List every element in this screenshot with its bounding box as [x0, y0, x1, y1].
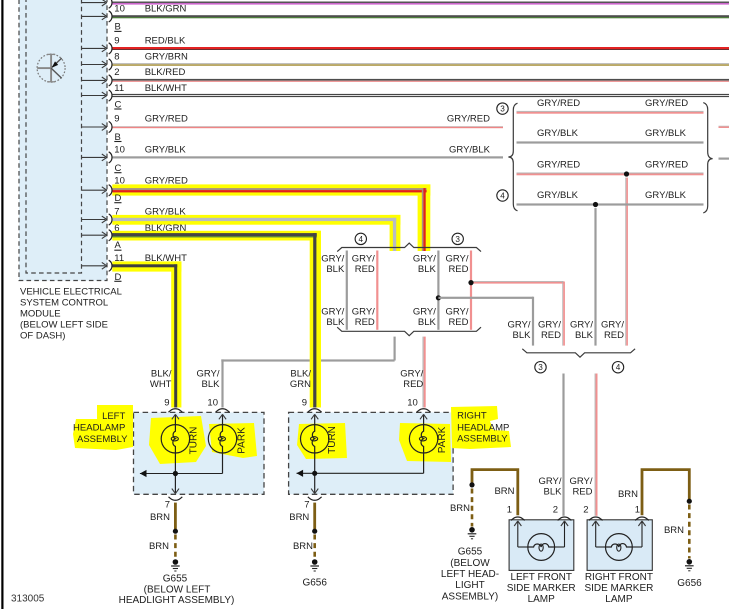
svg-text:(BELOW LEFT SIDE: (BELOW LEFT SIDE	[20, 320, 108, 331]
svg-text:RED: RED	[448, 264, 468, 275]
svg-text:GRY/BLK: GRY/BLK	[145, 144, 187, 155]
svg-text:GRY/: GRY/	[445, 306, 468, 317]
svg-text:GRY/RED: GRY/RED	[145, 113, 188, 124]
svg-text:GRY/: GRY/	[413, 306, 436, 317]
svg-text:BRN: BRN	[150, 512, 170, 523]
svg-text:7: 7	[304, 500, 309, 511]
svg-text:PARK: PARK	[437, 426, 448, 453]
svg-text:G656: G656	[677, 578, 702, 589]
svg-text:RED: RED	[604, 330, 624, 341]
svg-text:8: 8	[114, 52, 119, 63]
svg-text:(BELOW: (BELOW	[450, 558, 490, 569]
svg-text:LEFT HEAD-: LEFT HEAD-	[441, 569, 499, 580]
svg-text:BLK/WHT: BLK/WHT	[145, 83, 187, 94]
svg-text:GRY/: GRY/	[445, 253, 468, 264]
svg-text:GRY/: GRY/	[321, 253, 344, 264]
svg-text:OF DASH): OF DASH)	[20, 331, 65, 342]
svg-text:RED/BLK: RED/BLK	[145, 35, 186, 46]
svg-text:(BELOW LEFT: (BELOW LEFT	[144, 584, 211, 595]
svg-text:9: 9	[114, 113, 119, 124]
svg-text:3: 3	[538, 363, 543, 372]
svg-text:GRY/RED: GRY/RED	[645, 98, 688, 109]
svg-text:HEADLIGHT ASSEMBLY): HEADLIGHT ASSEMBLY)	[119, 595, 235, 606]
svg-text:LAMP: LAMP	[528, 594, 556, 605]
svg-text:TURN: TURN	[189, 427, 200, 455]
svg-text:G655: G655	[458, 547, 483, 558]
svg-text:GRY/: GRY/	[538, 476, 561, 487]
svg-text:1: 1	[507, 504, 512, 515]
svg-text:GRY/RED: GRY/RED	[645, 160, 688, 171]
svg-text:RED: RED	[403, 379, 423, 390]
svg-text:GRY/RED: GRY/RED	[447, 113, 490, 124]
svg-text:10: 10	[407, 397, 418, 408]
svg-text:BLK: BLK	[326, 317, 345, 328]
svg-text:9: 9	[302, 397, 307, 408]
svg-text:RED: RED	[541, 330, 561, 341]
svg-text:BLK: BLK	[575, 330, 594, 341]
svg-text:SIDE MARKER: SIDE MARKER	[507, 583, 576, 594]
svg-text:GRY/: GRY/	[570, 319, 593, 330]
svg-text:BLK: BLK	[544, 486, 563, 497]
svg-text:2: 2	[553, 504, 558, 515]
svg-text:GRY/: GRY/	[321, 306, 344, 317]
svg-text:RED: RED	[448, 317, 468, 328]
svg-text:4: 4	[616, 363, 621, 372]
svg-text:LIGHT: LIGHT	[455, 580, 484, 591]
svg-text:LAMP: LAMP	[605, 594, 633, 605]
svg-text:BLK/: BLK/	[151, 369, 172, 380]
svg-text:BLK: BLK	[202, 379, 221, 390]
svg-text:BRN: BRN	[289, 512, 309, 523]
svg-text:GRY/BLK: GRY/BLK	[645, 190, 687, 201]
svg-text:RIGHT FRONT: RIGHT FRONT	[585, 572, 653, 583]
svg-text:GRY/: GRY/	[507, 319, 530, 330]
svg-text:GRN: GRN	[290, 379, 311, 390]
svg-text:GRY/: GRY/	[413, 253, 436, 264]
svg-text:GRY/: GRY/	[196, 369, 219, 380]
svg-text:LEFT FRONT: LEFT FRONT	[510, 572, 571, 583]
svg-text:GRY/: GRY/	[352, 253, 375, 264]
svg-text:RIGHT: RIGHT	[457, 411, 487, 422]
svg-text:PARK: PARK	[237, 427, 248, 454]
svg-text:WHT: WHT	[150, 379, 172, 390]
svg-text:BRN: BRN	[618, 489, 638, 500]
svg-text:ASSEMBLY: ASSEMBLY	[77, 434, 128, 445]
svg-text:SYSTEM CONTROL: SYSTEM CONTROL	[20, 298, 108, 309]
svg-text:GRY/RED: GRY/RED	[537, 160, 580, 171]
svg-text:11: 11	[114, 83, 124, 94]
svg-text:GRY/RED: GRY/RED	[537, 98, 580, 109]
svg-text:2: 2	[583, 504, 588, 515]
svg-text:BLK: BLK	[418, 264, 437, 275]
svg-text:RED: RED	[355, 317, 375, 328]
svg-text:ASSEMBLY: ASSEMBLY	[457, 434, 508, 445]
svg-text:BLK/GRN: BLK/GRN	[145, 4, 187, 15]
svg-text:GRY/BLK: GRY/BLK	[645, 128, 687, 139]
svg-text:VEHICLE ELECTRICAL: VEHICLE ELECTRICAL	[20, 287, 122, 298]
svg-text:3: 3	[455, 235, 460, 244]
svg-text:G656: G656	[302, 578, 327, 589]
svg-text:GRY/: GRY/	[569, 476, 592, 487]
svg-text:GRY/BRN: GRY/BRN	[145, 52, 188, 63]
svg-text:2: 2	[114, 67, 119, 78]
svg-text:BRN: BRN	[664, 525, 684, 536]
svg-text:4: 4	[359, 235, 364, 244]
svg-text:HEADLAMP: HEADLAMP	[73, 423, 125, 434]
svg-text:9: 9	[114, 35, 119, 46]
svg-text:BLK: BLK	[326, 264, 345, 275]
svg-text:SIDE MARKER: SIDE MARKER	[584, 583, 653, 594]
svg-text:3: 3	[500, 105, 505, 114]
svg-text:BRN: BRN	[494, 486, 514, 497]
svg-text:GRY/BLK: GRY/BLK	[537, 190, 579, 201]
svg-text:10: 10	[114, 4, 125, 15]
svg-text:BRN: BRN	[450, 503, 470, 514]
svg-text:RED: RED	[572, 486, 592, 497]
svg-text:GRY/BLK: GRY/BLK	[537, 128, 579, 139]
svg-text:GRY/BLK: GRY/BLK	[449, 144, 491, 155]
svg-text:BLK: BLK	[418, 317, 437, 328]
svg-text:BLK: BLK	[513, 330, 532, 341]
svg-text:9: 9	[164, 397, 169, 408]
svg-text:BRN: BRN	[293, 541, 313, 552]
svg-text:313005: 313005	[11, 593, 45, 604]
svg-text:BRN: BRN	[149, 541, 169, 552]
svg-text:1: 1	[635, 504, 640, 515]
svg-text:4: 4	[500, 192, 505, 201]
svg-text:A: A	[115, 240, 122, 251]
svg-text:LEFT: LEFT	[102, 411, 125, 422]
svg-text:GRY/: GRY/	[601, 319, 624, 330]
svg-text:HEADLAMP: HEADLAMP	[457, 423, 509, 434]
svg-text:TURN: TURN	[327, 426, 338, 454]
svg-text:GRY/: GRY/	[538, 319, 561, 330]
svg-text:BLK/: BLK/	[290, 369, 311, 380]
svg-text:G655: G655	[163, 573, 188, 584]
svg-text:7: 7	[165, 500, 170, 511]
svg-text:10: 10	[207, 397, 218, 408]
svg-text:GRY/: GRY/	[352, 306, 375, 317]
svg-text:MODULE: MODULE	[20, 309, 61, 320]
svg-text:ASSEMBLY): ASSEMBLY)	[442, 591, 499, 602]
svg-text:BLK/RED: BLK/RED	[145, 67, 186, 78]
svg-text:RED: RED	[355, 264, 375, 275]
svg-text:GRY/: GRY/	[400, 369, 423, 380]
svg-text:10: 10	[114, 144, 125, 155]
